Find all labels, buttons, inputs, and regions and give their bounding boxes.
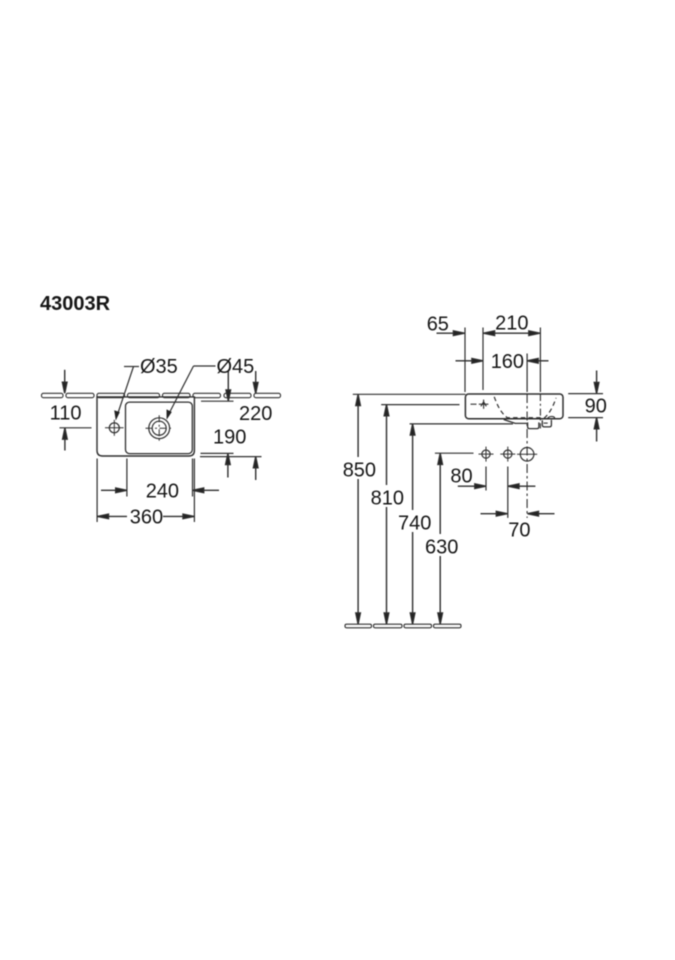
dim 190: upper arrow [227, 371, 229, 401]
mounting hole middle [504, 450, 512, 458]
floor slats [345, 624, 461, 628]
svg-text:Ø35: Ø35 [140, 356, 178, 378]
labels [40, 293, 607, 558]
ext line 810 (tap hole level) [381, 404, 459, 406]
dim 240: right extension line [192, 459, 194, 497]
dim 240: right outside arrow [193, 489, 219, 491]
white masks under labels on dim lines [340, 457, 459, 556]
inner basin rect [126, 402, 193, 454]
dim 360: line with inward arrows [98, 515, 128, 517]
dim 190: ext line from inner rim bottom [201, 452, 234, 454]
trap tick [544, 422, 548, 424]
ext line above: basin left edge [464, 328, 466, 393]
tap hole crosshair [105, 420, 124, 436]
ext line below hole middle [507, 467, 509, 518]
dim 240: left outside arrow [101, 489, 126, 491]
svg-text:43003R: 43003R [40, 293, 111, 315]
basin body (front view) [465, 394, 563, 419]
svg-text:240: 240 [146, 481, 179, 503]
ext line above: overflow centerline [539, 328, 541, 393]
dim 210: line with inward arrows [484, 332, 540, 334]
svg-text:90: 90 [585, 396, 607, 418]
svg-text:850: 850 [343, 459, 376, 481]
leader line Ø45 [168, 366, 216, 416]
ext line above: drain centerline [526, 354, 528, 393]
ext line 630 (hole level) [435, 452, 474, 454]
ext line 740 (apron level) [410, 423, 513, 425]
tap hole circle (Ø35) [109, 423, 119, 433]
svg-text:810: 810 [371, 487, 404, 509]
dim 190: lower arrow [227, 454, 229, 478]
svg-text:220: 220 [239, 403, 272, 425]
ext line 850 (rim level) [353, 393, 466, 395]
svg-text:70: 70 [508, 519, 530, 541]
dim 220: upper arrow to wall [255, 371, 257, 393]
drain hole outer circle (Ø45) [149, 418, 170, 439]
drain crosshair [146, 415, 174, 441]
dim 65: outside arrow [437, 332, 464, 334]
dim 80: right outside arrow [509, 485, 536, 487]
drain hole front [520, 448, 534, 462]
ext line below hole left [485, 467, 487, 491]
trap cup left [528, 422, 539, 428]
dim 90: top ext line [568, 393, 603, 395]
svg-text:160: 160 [491, 351, 524, 373]
tap hole position marker [479, 400, 489, 409]
dim 110: lower arrow [64, 429, 66, 451]
washbasin outer outline (top view) [97, 397, 194, 456]
drain centerline (vertical dashed) [526, 394, 528, 518]
dim line 810 [386, 405, 388, 623]
dim 90: upper outside arrow [596, 371, 598, 393]
dim 240: left extension line [126, 459, 128, 497]
dim 160: left outside arrow [456, 360, 483, 362]
dim 190: ext line from inner rim top [201, 400, 234, 402]
dim 110: upper arrow to wall [64, 370, 66, 393]
overflow hook [547, 416, 555, 419]
dim 70: right outside arrow [528, 513, 554, 515]
svg-text:65: 65 [427, 313, 449, 335]
dim line 630 [439, 454, 441, 624]
dim line 740 [412, 425, 414, 624]
dim 360: right extension line [193, 459, 195, 523]
dim 160: right outside arrow [528, 360, 549, 362]
dim 80: left outside arrow [458, 485, 485, 487]
dim 90: bottom ext line [568, 417, 603, 419]
overflow centerline (vertical dashed) [539, 394, 541, 429]
mounting hole left [482, 450, 490, 458]
dim 220: ext line from outer bottom [200, 456, 262, 458]
dim 110: extension line at tap-hole level [60, 427, 92, 429]
leader line Ø35 [117, 367, 139, 417]
svg-text:80: 80 [450, 465, 472, 487]
hidden bowl dashed outline [494, 397, 556, 418]
trap cup right [542, 420, 551, 427]
ext line above: tap hole centerline [482, 328, 484, 391]
svg-text:190: 190 [213, 427, 246, 449]
svg-text:740: 740 [398, 512, 431, 534]
svg-text:630: 630 [425, 536, 458, 558]
dim 70: left outside arrow [481, 513, 507, 515]
tap hole marker dash [471, 403, 477, 405]
svg-text:360: 360 [130, 507, 163, 529]
dim 360: left extension line [96, 459, 98, 523]
svg-text:Ø45: Ø45 [217, 356, 255, 378]
dim 90: lower outside arrow [596, 418, 598, 441]
drain hole inner circle [152, 421, 166, 435]
dim line 850 [357, 395, 359, 624]
svg-text:210: 210 [495, 313, 528, 335]
svg-text:110: 110 [50, 402, 82, 424]
wall band slats [42, 393, 281, 397]
drain lip [504, 420, 527, 424]
dim 220: lower arrow [255, 457, 257, 480]
